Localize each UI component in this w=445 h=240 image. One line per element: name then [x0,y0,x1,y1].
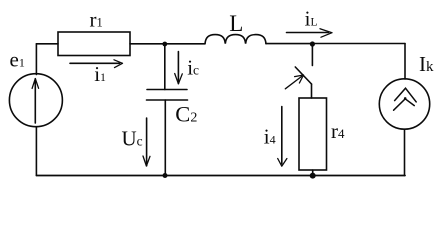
current arrow i4 [281,107,283,164]
voltage arrow Uc [146,118,148,166]
Ik chevron small [394,99,415,110]
resistor R1 [58,32,130,56]
wire right rail lower [404,129,406,175]
node B top [310,41,315,46]
svg-text:iL: iL [305,7,318,31]
wire capacitor branch lower [164,100,166,176]
wire from L to node B [266,43,312,45]
wire bottom rail [37,175,406,177]
current arrow iL [287,32,329,34]
capacitor C2 plate top [147,89,187,91]
wire left rail upper [35,44,37,75]
e1 arrow [34,79,36,123]
switch lead to r4 [311,84,313,98]
svg-text:i4: i4 [264,125,276,149]
switch blade [295,67,311,84]
Ik chevron large [395,88,417,102]
current arrow i1 [70,62,120,64]
svg-text:r1: r1 [90,8,103,32]
inductor L [205,35,266,44]
svg-text:ic: ic [187,56,199,80]
svg-text:Uc: Uc [122,127,143,151]
wire switch stub from node B [311,44,313,66]
svg-text:C2: C2 [175,102,197,127]
switch actuation arrow [285,77,301,89]
capacitor C2 plate bottom [147,99,188,101]
current arrow ic [177,52,179,84]
resistor r4 [299,98,327,170]
svg-text:e1: e1 [10,48,25,72]
current source Ik [379,79,429,129]
wire right rail upper [404,44,406,80]
wire from R1 to node A [130,43,205,45]
node A top [162,42,167,47]
node B bottom [310,173,316,179]
svg-text:i1: i1 [94,62,106,86]
wire r4 to bottom rail [312,170,314,176]
wire capacitor branch upper [164,44,166,90]
svg-text:L: L [229,11,243,36]
node A bottom [163,173,168,178]
svg-text:Ik: Ik [419,52,434,76]
Ik apex dot [404,97,407,100]
wire top rail left segment [36,43,58,45]
svg-text:r4: r4 [331,119,345,143]
wire from node B to right rail [312,43,405,45]
voltage source e1 [9,74,62,127]
wire left rail lower [35,127,37,176]
